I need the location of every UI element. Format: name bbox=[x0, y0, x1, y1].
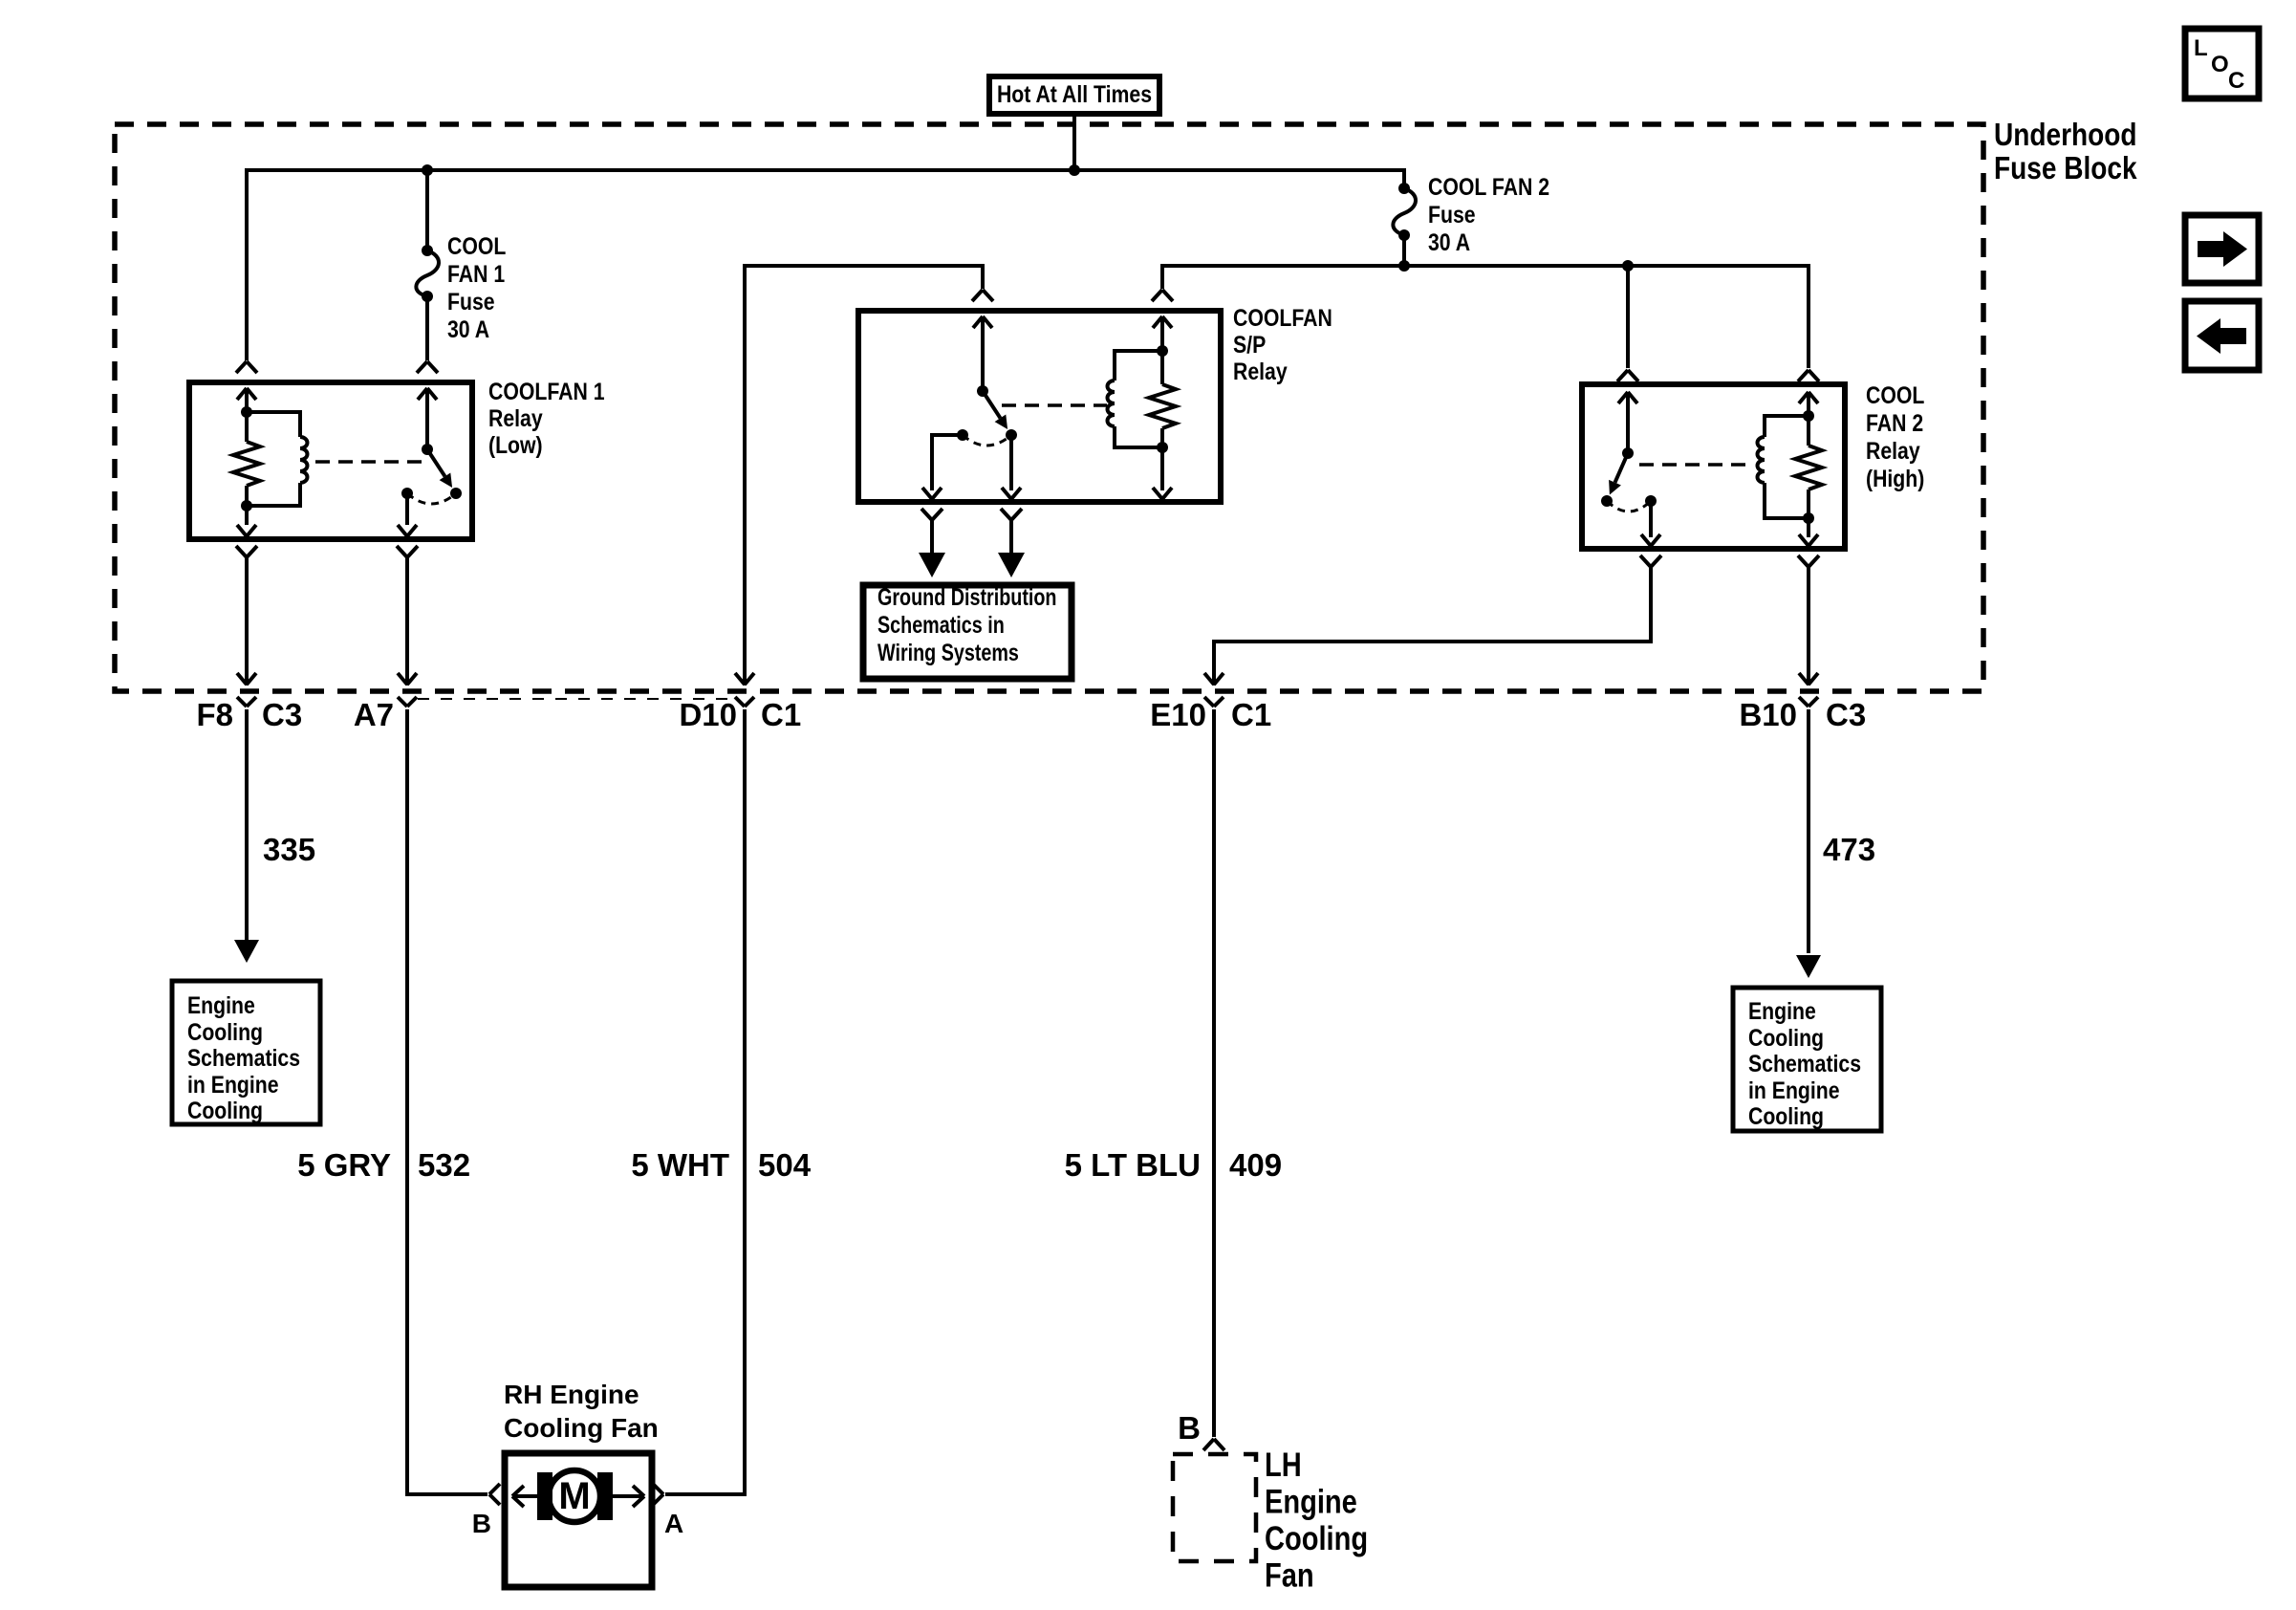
svg-text:FAN 2: FAN 2 bbox=[1866, 409, 1923, 436]
svg-text:30 A: 30 A bbox=[447, 315, 489, 342]
svg-text:COOLFAN: COOLFAN bbox=[1233, 304, 1332, 331]
svg-text:Cooling: Cooling bbox=[187, 1097, 263, 1123]
svg-text:Ground Distribution: Ground Distribution bbox=[877, 584, 1056, 611]
svg-text:Cooling: Cooling bbox=[1748, 1102, 1824, 1129]
svg-text:Underhood: Underhood bbox=[1994, 118, 2137, 153]
svg-text:335: 335 bbox=[263, 832, 315, 867]
svg-text:COOLFAN 1: COOLFAN 1 bbox=[488, 378, 605, 404]
svg-text:Schematics in: Schematics in bbox=[877, 612, 1005, 639]
svg-text:A: A bbox=[664, 1509, 683, 1538]
svg-text:30 A: 30 A bbox=[1428, 228, 1470, 255]
svg-text:532: 532 bbox=[418, 1147, 470, 1183]
svg-text:Engine: Engine bbox=[1748, 997, 1816, 1024]
svg-text:in Engine: in Engine bbox=[187, 1071, 279, 1098]
svg-text:(High): (High) bbox=[1866, 465, 1924, 491]
svg-text:5 GRY: 5 GRY bbox=[297, 1147, 391, 1183]
svg-text:COOL: COOL bbox=[447, 232, 506, 259]
svg-text:B: B bbox=[1178, 1410, 1201, 1446]
svg-text:5 WHT: 5 WHT bbox=[631, 1147, 729, 1183]
svg-text:409: 409 bbox=[1229, 1147, 1282, 1183]
svg-text:COOL FAN 2: COOL FAN 2 bbox=[1428, 173, 1549, 200]
svg-text:Schematics: Schematics bbox=[1748, 1050, 1861, 1077]
svg-text:S/P: S/P bbox=[1233, 331, 1266, 358]
svg-text:5 LT BLU: 5 LT BLU bbox=[1065, 1147, 1201, 1183]
svg-text:Fuse Block: Fuse Block bbox=[1994, 151, 2137, 186]
svg-text:in Engine: in Engine bbox=[1748, 1077, 1840, 1103]
svg-text:Relay: Relay bbox=[1233, 358, 1288, 384]
svg-text:Cooling: Cooling bbox=[187, 1018, 263, 1045]
svg-text:Relay: Relay bbox=[1866, 437, 1920, 464]
svg-text:RH Engine: RH Engine bbox=[504, 1380, 639, 1409]
svg-text:L: L bbox=[2194, 35, 2208, 61]
svg-text:C1: C1 bbox=[761, 697, 801, 732]
svg-text:O: O bbox=[2211, 52, 2229, 77]
svg-text:Wiring Systems: Wiring Systems bbox=[877, 640, 1019, 666]
svg-text:Fuse: Fuse bbox=[1428, 201, 1476, 228]
svg-text:D10: D10 bbox=[679, 697, 737, 732]
svg-text:(Low): (Low) bbox=[488, 431, 543, 458]
svg-text:Fuse: Fuse bbox=[447, 288, 495, 315]
svg-text:C: C bbox=[2228, 68, 2244, 94]
svg-text:504: 504 bbox=[758, 1147, 812, 1183]
svg-text:FAN 1: FAN 1 bbox=[447, 260, 505, 287]
svg-text:Engine: Engine bbox=[1265, 1483, 1357, 1520]
svg-text:Relay: Relay bbox=[488, 404, 543, 431]
svg-text:E10: E10 bbox=[1150, 697, 1206, 732]
svg-text:Fan: Fan bbox=[1265, 1556, 1314, 1594]
svg-text:Cooling: Cooling bbox=[1748, 1024, 1824, 1051]
svg-text:COOL: COOL bbox=[1866, 381, 1924, 408]
svg-text:Engine: Engine bbox=[187, 991, 255, 1018]
svg-text:LH: LH bbox=[1265, 1446, 1302, 1483]
svg-text:C3: C3 bbox=[1826, 697, 1866, 732]
svg-text:C3: C3 bbox=[262, 697, 302, 732]
svg-text:473: 473 bbox=[1823, 832, 1875, 867]
svg-text:Cooling: Cooling bbox=[1265, 1519, 1368, 1556]
svg-text:B10: B10 bbox=[1739, 697, 1797, 732]
svg-text:M: M bbox=[558, 1475, 590, 1517]
svg-text:Cooling Fan: Cooling Fan bbox=[504, 1413, 659, 1443]
svg-text:A7: A7 bbox=[354, 697, 394, 732]
svg-text:B: B bbox=[472, 1509, 491, 1538]
svg-text:F8: F8 bbox=[196, 697, 233, 732]
svg-text:C1: C1 bbox=[1231, 697, 1271, 732]
svg-text:Hot At All Times: Hot At All Times bbox=[997, 80, 1152, 107]
svg-text:Schematics: Schematics bbox=[187, 1044, 300, 1071]
